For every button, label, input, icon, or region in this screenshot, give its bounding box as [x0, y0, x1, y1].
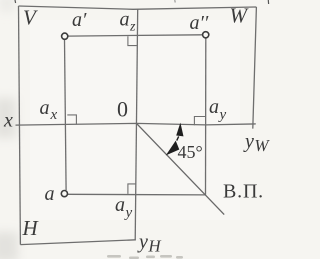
svg-text:V: V	[23, 6, 38, 30]
central vertical line (a_z - 0 - y_H)	[135, 9, 138, 240]
scan artifact tick top right	[267, 0, 269, 4]
right angle mark at a_y on H	[128, 184, 136, 194]
45-degree bisector line	[137, 123, 225, 214]
right angle mark at a_z	[128, 36, 137, 45]
svg-text:a: a	[45, 183, 55, 205]
projection line a' to a	[65, 40, 67, 190]
svg-text:a′′: a′′	[190, 12, 209, 34]
point a'' circle	[203, 32, 209, 38]
right angle mark at a_y on W	[194, 117, 205, 126]
left edge of planes V and H	[19, 6, 21, 245]
top edge of planes V and W	[19, 6, 257, 9]
right edge of plane W	[253, 7, 257, 129]
x axis and y_W axis horizontal line	[16, 123, 256, 125]
right angle mark at a_x	[67, 115, 76, 125]
svg-text:W: W	[230, 4, 250, 28]
arrow tail segment	[177, 136, 179, 140]
svg-text:0: 0	[117, 97, 128, 122]
svg-text:a′: a′	[72, 9, 87, 31]
scan artifact tick top middle	[174, 0, 176, 3]
cropped caption fragment at bottom	[107, 255, 183, 259]
arrowhead on 45-degree line	[166, 141, 180, 156]
svg-text:45°: 45°	[178, 142, 203, 162]
bottom edge of plane H	[20, 240, 135, 245]
up arrow at axis	[176, 123, 183, 137]
svg-text:x: x	[3, 110, 13, 132]
scan artifact tick top left	[14, 0, 17, 3]
svg-text:H: H	[22, 216, 40, 240]
projection line a' to a''	[68, 35, 203, 36]
svg-text:В.П.: В.П.	[223, 181, 264, 203]
projection line a'' down to 45-degree junction	[205, 38, 207, 195]
point a' circle	[62, 33, 68, 39]
point a circle	[61, 191, 67, 197]
projection line a to junction	[68, 193, 206, 196]
